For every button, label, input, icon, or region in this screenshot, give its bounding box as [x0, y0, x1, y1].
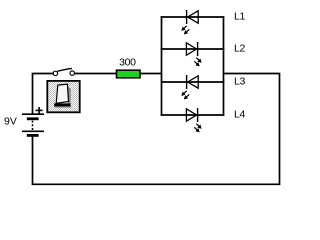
svg-text:L3: L3 [234, 75, 245, 87]
resistor R1 300 ohm [117, 70, 141, 78]
switch widget box (rocker switch) [47, 81, 79, 112]
wire: right rail to right edge, down and along bottom back to battery negative [33, 74, 280, 185]
svg-text:L1: L1 [234, 10, 245, 22]
wire row L1 [161, 16, 225, 18]
svg-text:9V: 9V [4, 115, 17, 127]
wire: battery positive up and right to switch [33, 74, 54, 115]
wire row L4 [161, 114, 225, 116]
LED array left rail [161, 16, 163, 116]
svg-text:300: 300 [119, 57, 136, 69]
LED L3 (points left) [182, 75, 198, 99]
wire: resistor to LED array [140, 73, 162, 75]
battery B1 9V [22, 107, 44, 137]
wire: switch to resistor [75, 73, 117, 75]
LED L4 (points right) [186, 108, 201, 132]
svg-text:L2: L2 [234, 42, 245, 54]
switch SW1 (open) [53, 69, 74, 76]
wire row L3 [161, 81, 225, 83]
LED L1 (points left) [182, 10, 198, 34]
LED L2 (points right) [186, 42, 201, 66]
svg-text:L4: L4 [234, 108, 245, 120]
LED array right rail [223, 16, 225, 116]
wire row L2 [161, 48, 225, 50]
